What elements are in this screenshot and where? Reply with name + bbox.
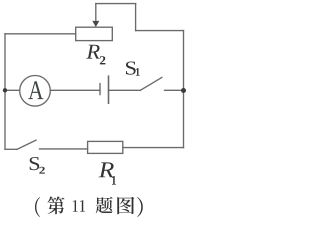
wire to top-right corner [136,30,184,32]
wire slider right drop [135,4,137,31]
caption 图 [117,197,134,214]
resistor R1 body [88,141,123,153]
caption close paren [137,197,143,217]
rheostat slider arrowhead [92,21,99,27]
wire S2 contact to R1 [40,148,88,150]
wire node to ammeter [5,89,20,91]
rheostat R2 body [76,27,113,40]
switch S1 blade [140,77,162,90]
label S1 [126,62,140,76]
label R1 [99,162,116,184]
junction node left [3,88,7,92]
wire left vertical branch [4,34,6,150]
label A of ammeter [28,81,43,99]
caption 题 [96,197,113,214]
ammeter U1 body [20,76,51,107]
caption open paren [35,197,40,217]
wire ammeter to battery [50,89,100,91]
wire top-left to R2 left terminal [5,33,76,35]
wire battery to S1 pivot [109,89,141,91]
label R2 [86,45,105,65]
junction node right [181,88,186,93]
caption 第 [48,196,65,214]
caption digit 1 [80,200,85,212]
switch S2 blade [5,140,36,149]
battery BT1 [100,76,109,103]
wire bottom-right from R1 [123,147,184,149]
caption digit 1 [73,200,78,212]
wire S1 contact to right node [165,89,184,91]
label S2 [30,157,45,174]
wire slider top horizontal [96,3,136,5]
wire rheostat slider stem [95,4,97,22]
wire right vertical [183,31,185,148]
